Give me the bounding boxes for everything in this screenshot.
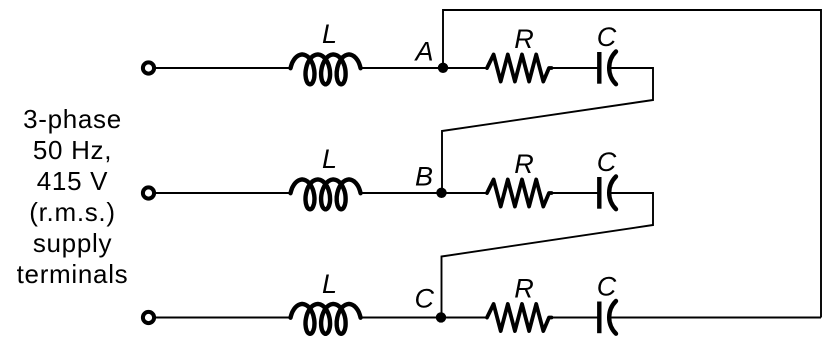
inductor L phase C: [291, 304, 361, 334]
wire node A up over top and down right side: [443, 10, 821, 318]
inductor L phase A: [291, 55, 361, 85]
wire inductor B to node B: [360, 192, 442, 194]
svg-text:50 Hz,: 50 Hz,: [33, 135, 112, 165]
svg-text:(r.m.s.): (r.m.s.): [29, 197, 115, 227]
svg-text:supply: supply: [33, 228, 112, 258]
node C: [436, 312, 446, 322]
wire node C to resistor: [441, 317, 488, 319]
terminal phase B: [143, 187, 154, 198]
wire resistor B to capacitor: [551, 192, 598, 194]
wire node B to resistor: [442, 192, 488, 194]
svg-text:R: R: [514, 274, 534, 304]
resistor R phase A: [487, 55, 552, 82]
wire terminal B to inductor: [154, 192, 291, 194]
wire B branch down to node C: [442, 192, 654, 318]
supply label text: [17, 104, 129, 289]
wire resistor A to capacitor: [551, 67, 598, 69]
svg-text:terminals: terminals: [17, 259, 129, 289]
wire resistor C to capacitor: [551, 317, 598, 319]
resistor R phase B: [487, 180, 552, 207]
terminal phase A: [143, 62, 154, 73]
svg-text:C: C: [597, 22, 617, 52]
wire capacitor A output: [611, 67, 653, 69]
svg-text:C: C: [597, 147, 617, 177]
svg-text:R: R: [514, 24, 534, 54]
wire inductor C to node C: [360, 317, 441, 319]
node B: [436, 188, 446, 198]
svg-text:415 V: 415 V: [37, 166, 108, 196]
wire node A to resistor: [443, 67, 488, 69]
inductor L phase B: [291, 180, 361, 210]
wire A branch down to node B: [442, 67, 653, 193]
svg-text:3-phase: 3-phase: [23, 104, 122, 134]
svg-text:L: L: [322, 19, 337, 49]
svg-text:R: R: [514, 149, 534, 179]
svg-text:A: A: [413, 37, 433, 67]
wire inductor A to node A: [360, 67, 443, 69]
node A: [438, 63, 448, 73]
capacitor C phase C: [599, 301, 616, 334]
svg-text:L: L: [322, 144, 337, 174]
resistor R phase C: [487, 304, 552, 331]
svg-text:B: B: [415, 162, 433, 192]
svg-text:C: C: [597, 272, 617, 302]
capacitor C phase A: [599, 52, 616, 85]
wire terminal C to inductor: [154, 317, 291, 319]
svg-text:L: L: [322, 269, 337, 299]
svg-text:C: C: [415, 284, 435, 314]
wire capacitor B output: [611, 192, 653, 194]
capacitor C phase B: [599, 177, 616, 210]
wire capacitor C output to right side: [611, 317, 821, 319]
wire terminal A to inductor: [154, 67, 291, 69]
terminal phase C: [143, 312, 154, 323]
